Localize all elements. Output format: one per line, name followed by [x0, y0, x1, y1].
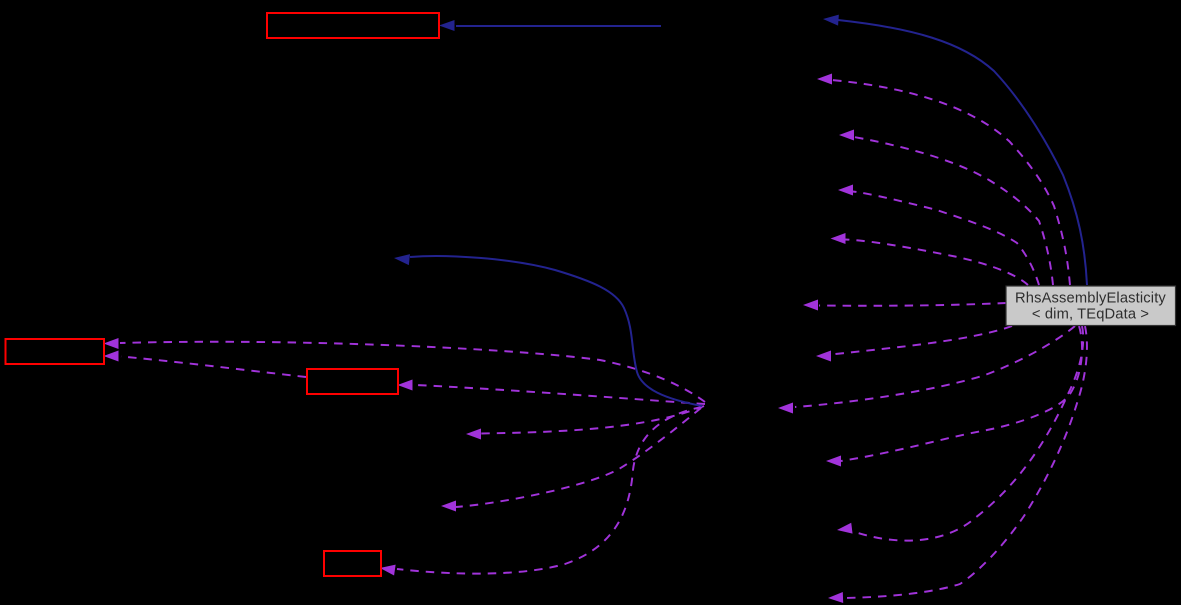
svg-text:< dim, TEqData >: < dim, TEqData >: [1032, 307, 1149, 323]
svg-text:RhsAssemblyElasticity: RhsAssemblyElasticity: [1015, 291, 1166, 307]
